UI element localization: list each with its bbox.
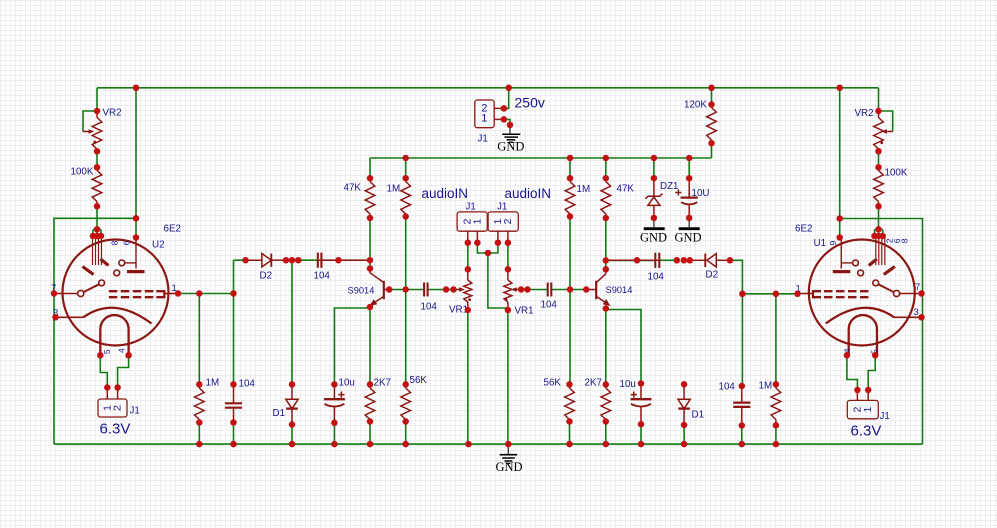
svg-text:J1: J1 [497, 201, 507, 212]
svg-text:D1: D1 [273, 408, 286, 419]
capacitor 104 left coupling [318, 259, 339, 261]
resistor 2K7 left [369, 384, 371, 388]
zener diode DZ1 [653, 178, 655, 196]
svg-text:VR2: VR2 [103, 108, 122, 119]
junction dots second bus [402, 155, 409, 162]
wire bottom GND stem [507, 444, 509, 446]
svg-text:D2: D2 [260, 270, 273, 281]
ground bar 10U [679, 227, 700, 230]
resistor 1M bottom left [198, 384, 200, 388]
svg-text:9: 9 [828, 241, 838, 246]
svg-text:GND: GND [497, 139, 524, 153]
junction dots left tube top pins [90, 233, 97, 240]
wire DZ1 bottom stem [653, 218, 655, 227]
junction dots right D2 row [634, 257, 641, 264]
junction dots left tube side pins [51, 290, 58, 297]
svg-text:10u: 10u [620, 379, 636, 390]
junction dots audio connector pins [465, 239, 472, 246]
wire 10U bottom stem [688, 218, 690, 227]
resistor 100K left [96, 167, 98, 170]
svg-text:6.3V: 6.3V [851, 423, 882, 440]
junction dots resistor bottoms second bus [367, 215, 374, 222]
resistor 47K left [369, 178, 371, 181]
svg-text:VR1: VR1 [515, 306, 534, 317]
junction dots VR2 and 100K right [875, 108, 882, 115]
connector J1 250v [475, 100, 494, 128]
wire left 1M column [198, 294, 200, 385]
junction dots tube bottom pins [97, 352, 104, 359]
potentiometer VR2 left [96, 111, 98, 118]
wire 10U column top [688, 158, 690, 178]
junction dots right base row [518, 286, 525, 293]
junction dots ground bus [196, 441, 203, 448]
wire 47K right column top [605, 158, 607, 178]
wire right heater pins to J1 connector [847, 355, 875, 390]
resistor 120K [711, 105, 713, 108]
svg-text:VR2: VR2 [855, 108, 874, 119]
wire right 100K to heater pins [875, 204, 883, 236]
svg-text:2: 2 [503, 218, 514, 224]
junction dots heater connector pins [104, 384, 111, 391]
resistor 47K right [605, 178, 607, 181]
junction dots 250v connector [501, 105, 508, 112]
diode D1 right [683, 384, 685, 399]
resistor 2K7 right [605, 384, 607, 388]
junction dots right tube side pins [918, 290, 925, 297]
svg-text:250v: 250v [515, 95, 545, 111]
svg-text:D1: D1 [692, 410, 705, 421]
wire right emitter to 2K7 and 10u jog [606, 308, 641, 384]
wire bottom ground bus [54, 443, 923, 445]
connector J1 heater right [847, 400, 878, 418]
svg-text:U1: U1 [814, 238, 827, 249]
svg-text:6E2: 6E2 [795, 224, 812, 235]
wire 1M left column through base node to 56K [405, 217, 407, 385]
svg-text:D2: D2 [706, 269, 719, 280]
svg-text:1M: 1M [577, 184, 591, 195]
svg-text:1: 1 [481, 113, 487, 125]
wire audio inner pins ground jog [477, 243, 508, 308]
junction dots resistor tops second bus [367, 175, 374, 182]
wire VR2 left stem [96, 151, 98, 167]
junction dots right tube top pins [871, 233, 878, 240]
junction dots left plate row [175, 290, 182, 297]
svg-text:10U: 10U [692, 188, 710, 199]
svg-text:GND: GND [675, 230, 702, 244]
wire left 104 column [233, 294, 235, 385]
connector J1 audio left [457, 212, 487, 231]
capacitor 104 left base [423, 289, 425, 291]
svg-text:1: 1 [863, 406, 874, 412]
svg-text:56K: 56K [410, 375, 428, 386]
wire VR2 left wiper bracket [83, 111, 97, 132]
wire right grid column x=839.7 [839, 88, 841, 238]
wire 1M right column top [569, 158, 571, 178]
wire right 1M column [775, 294, 777, 385]
junction dots top bus [133, 85, 140, 92]
connector J1 heater left [98, 399, 127, 417]
resistor 56K left [405, 384, 407, 388]
ground earth symbol top [502, 133, 520, 135]
wire 47K left bottom to D2 row [369, 218, 371, 260]
junction dots bottom component tops [196, 381, 203, 388]
capacitor 10U top [688, 178, 690, 197]
capacitor 104 right base [547, 289, 549, 291]
resistor 100K right [878, 167, 880, 170]
wire top bus left drop to VR2 [96, 88, 98, 111]
wire 1M right column through base node to 56K [569, 217, 571, 385]
svg-text:47K: 47K [344, 183, 362, 194]
resistor 1M right column [569, 178, 571, 181]
wire left 100K to heater pins [93, 204, 101, 236]
junction dots right plate row [794, 291, 801, 298]
wire second bus y=158 [370, 143, 712, 178]
junction dots VR2 and 100K left [94, 108, 101, 115]
svg-text:GND: GND [640, 230, 667, 244]
ground earth symbol bottom [500, 454, 518, 456]
resistor 56K right [569, 384, 571, 388]
wire 120K top stub [711, 88, 713, 105]
junction dots bottom component bottoms [196, 419, 203, 426]
svg-text:J1: J1 [478, 134, 488, 145]
svg-text:2K7: 2K7 [374, 377, 391, 388]
svg-text:10u: 10u [339, 378, 355, 389]
svg-text:100K: 100K [885, 168, 908, 179]
wire 250v connector to top bus [504, 88, 509, 109]
svg-text:120K: 120K [684, 100, 707, 111]
svg-text:100K: 100K [71, 167, 94, 178]
wire right plate node row y=293.8 [742, 293, 797, 295]
svg-text:audioIN: audioIN [422, 186, 469, 201]
svg-text:J1: J1 [466, 201, 476, 212]
transistor Q2 S9014 right [595, 281, 597, 299]
svg-text:6E2: 6E2 [164, 224, 181, 235]
svg-text:104: 104 [314, 270, 331, 281]
junction dots left base row [386, 286, 393, 293]
svg-text:1: 1 [472, 218, 483, 224]
svg-text:2: 2 [112, 405, 123, 411]
svg-text:104: 104 [541, 300, 558, 311]
svg-text:6: 6 [122, 240, 132, 245]
svg-text:1M: 1M [387, 184, 401, 195]
wire left emitter to 2K7 and 10u jog [334, 307, 370, 384]
svg-text:DZ1: DZ1 [660, 181, 679, 192]
svg-text:104: 104 [421, 301, 438, 312]
svg-text:8: 8 [109, 240, 119, 245]
svg-text:56K: 56K [544, 378, 562, 389]
svg-text:U2: U2 [152, 240, 165, 251]
wire right base node row [521, 289, 586, 291]
diode D2 left [246, 259, 262, 261]
wire right D2 row segments [606, 260, 743, 294]
svg-text:2: 2 [853, 406, 864, 412]
svg-text:104: 104 [239, 379, 256, 390]
junction dots emitters [367, 304, 374, 311]
wire left VR1 column top [467, 243, 469, 270]
wire top bus right drop to VR2 [878, 88, 880, 111]
ground bar DZ1 [644, 227, 665, 230]
svg-text:2K7: 2K7 [585, 378, 602, 389]
capacitor 104 right coupling [637, 259, 659, 261]
svg-text:104: 104 [648, 271, 665, 282]
svg-text:8: 8 [900, 238, 910, 243]
junction dots VR1 pins [465, 266, 472, 273]
resistor 1M left column [405, 178, 407, 181]
wire right cathode rail [840, 219, 923, 445]
capacitor 104 bottom right [741, 386, 743, 403]
svg-text:47K: 47K [617, 184, 635, 195]
svg-text:4: 4 [117, 348, 127, 353]
svg-text:S9014: S9014 [606, 285, 633, 295]
svg-text:1M: 1M [206, 377, 220, 388]
wire VR2 right wiper bracket [879, 111, 893, 132]
capacitor 104 bottom left [233, 384, 235, 403]
resistor 1M bottom right [775, 384, 777, 388]
tube U1 6E2 right [809, 240, 915, 346]
svg-text:J1: J1 [880, 411, 890, 422]
svg-text:104: 104 [719, 381, 736, 392]
diode D2 right [690, 259, 706, 261]
wire top supply bus [97, 87, 879, 89]
wire left grid column x=136 [135, 88, 137, 238]
wire right VR1 column bottom [507, 310, 509, 444]
svg-text:audioIN: audioIN [505, 186, 552, 201]
capacitor 10u bottom right [640, 384, 642, 400]
wire top GND stem [504, 119, 510, 124]
wire left VR1 column bottom [467, 310, 469, 444]
potentiometer VR1 right [507, 269, 509, 280]
transistor Q1 S9014 left [383, 281, 385, 299]
svg-text:S9014: S9014 [348, 285, 375, 295]
junction dots 120K [708, 101, 715, 108]
potentiometer VR1 left [467, 269, 469, 280]
tube U2 6E2 left [63, 240, 169, 346]
wire left D1 column [291, 260, 293, 384]
wire right collector stub [605, 260, 607, 269]
wire left cathode rail [54, 218, 136, 444]
svg-text:J1: J1 [130, 406, 140, 417]
svg-text:1M: 1M [759, 381, 773, 392]
wire 47K right bottom to D2 row [605, 218, 607, 260]
wire left heater pins to J1 connector [100, 355, 128, 387]
svg-text:3: 3 [914, 307, 919, 318]
wire right 104 column [741, 294, 743, 386]
wire VR2 right stem [878, 151, 880, 167]
connector J1 audio right [488, 212, 518, 231]
svg-text:6.3V: 6.3V [100, 421, 131, 438]
wire right VR1 column top [507, 243, 509, 270]
diode D1 left [291, 384, 293, 399]
junction dots left D2 row [242, 257, 249, 264]
potentiometer VR2 right [878, 111, 880, 118]
svg-text:GND: GND [496, 460, 523, 474]
wire DZ1 column top [653, 158, 655, 178]
wire left collector stub [369, 260, 371, 268]
wire left D2 row segments [234, 259, 371, 261]
wire left plate node row y=293.5 [178, 260, 234, 293]
svg-text:5: 5 [102, 349, 112, 354]
capacitor 10u bottom left [333, 384, 335, 399]
wire left base node row [389, 289, 453, 291]
wire 1M left column top [405, 158, 407, 178]
